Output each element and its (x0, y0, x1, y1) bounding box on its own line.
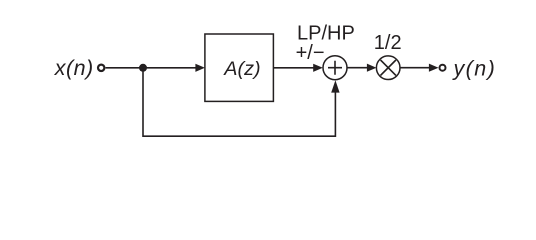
arrowhead at output terminal (429, 64, 439, 72)
times sign in multiplier (381, 60, 396, 75)
arrowhead into adder (313, 64, 323, 72)
junction node (139, 64, 147, 72)
arrowhead into A(z) (195, 64, 205, 72)
wire adder to multiplier (347, 67, 368, 69)
arrowhead into multiplier (367, 64, 377, 72)
output terminal (440, 65, 446, 71)
adder (summing node) (323, 56, 347, 80)
block A(z) (205, 34, 274, 101)
wire input to A(z) (106, 67, 196, 69)
arrowhead into adder bottom (331, 80, 339, 92)
svg-text:1/2: 1/2 (374, 32, 402, 54)
feedback wire (143, 68, 335, 136)
svg-text:x(n): x(n) (54, 56, 94, 80)
wire multiplier to output (400, 67, 430, 69)
input terminal (98, 65, 104, 71)
wire A(z) to adder (273, 67, 313, 69)
svg-text:A(z): A(z) (223, 58, 260, 80)
svg-text:+/−: +/− (296, 42, 325, 64)
svg-text:y(n): y(n) (452, 56, 497, 80)
plus sign in adder (328, 61, 342, 75)
multiplier (376, 56, 400, 80)
